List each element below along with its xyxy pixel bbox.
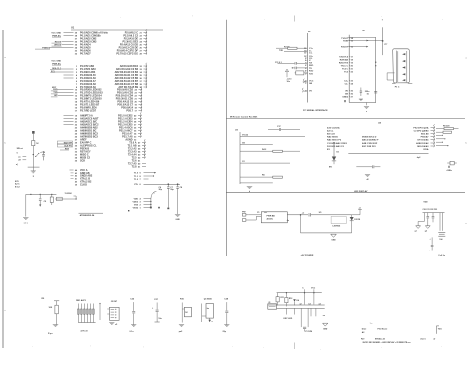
svg-text:C8: C8: [180, 187, 183, 189]
connector P1 DB9 inner left double edge: [395, 51, 397, 83]
svg-text:nc: nc: [362, 30, 365, 32]
svg-text:23: 23: [351, 80, 354, 82]
svg-text:39: 39: [134, 118, 137, 120]
section divider horizontal upper: [226, 118, 465, 120]
svg-text:19: 19: [75, 115, 78, 117]
polarized capacitor C19: [309, 213, 311, 216]
svg-text:D1: D1: [337, 152, 340, 154]
svg-text:3: 3: [76, 72, 78, 74]
capacitor C18 on ground branch: [373, 165, 374, 168]
ground symbol bypass C20: [416, 226, 421, 229]
IR wire row 4: [240, 162, 290, 164]
svg-text:d: d: [249, 191, 250, 193]
reset switch blade: [36, 153, 39, 157]
resistor R12 drop: [285, 293, 287, 298]
svg-text:22: 22: [135, 95, 138, 97]
svg-text:C2-: C2-: [345, 83, 349, 85]
svg-text:': ': [192, 15, 193, 19]
svg-text:44: 44: [75, 169, 78, 172]
svg-text:17: 17: [351, 56, 354, 58]
svg-text:on: on: [18, 156, 21, 158]
diode D4 drop: [294, 293, 296, 299]
svg-text:T2OUT A: T2OUT A: [339, 55, 348, 58]
svg-text:20: 20: [75, 118, 78, 120]
ground symbol serial section: [366, 103, 368, 106]
svg-text:KEY LED: KEY LED: [284, 318, 293, 320]
connector J3 body: [268, 304, 277, 309]
svg-text:23: 23: [135, 92, 138, 94]
svg-text:13: 13: [75, 98, 78, 100]
capacitor C16b small cap to ground: [360, 88, 362, 91]
svg-text:26: 26: [75, 136, 78, 138]
resistor network RN1 common rail: [78, 322, 95, 324]
ground symbol group C: [109, 323, 114, 325]
svg-text:VS: VS: [309, 90, 312, 92]
svg-text:T2.8: T2.8: [132, 165, 138, 168]
svg-text:39: 39: [75, 32, 78, 34]
resistor R4 on IR row 3: [240, 150, 273, 152]
svg-text:Ref: Ref: [361, 338, 365, 340]
group E tick: [155, 321, 160, 323]
svg-text:Q1 8550: Q1 8550: [204, 299, 213, 301]
svg-text:41: 41: [138, 165, 141, 168]
svg-text:Y3 12M: Y3 12M: [305, 331, 312, 333]
svg-text:27: 27: [140, 50, 143, 52]
bottom block top rail: [277, 292, 322, 294]
svg-text:23: 23: [75, 127, 78, 129]
svg-text:DF3 D2/A5: DF3 D2/A5: [418, 138, 430, 141]
svg-text:.: .: [320, 348, 321, 351]
capacitor C15 in series on serial net: [374, 91, 377, 93]
svg-text:e: e: [212, 321, 213, 323]
svg-text:29: 29: [75, 142, 78, 144]
svg-text:34: 34: [75, 46, 78, 49]
svg-text:bc: bc: [207, 308, 210, 310]
svg-text:33: 33: [75, 154, 78, 156]
svg-text:R12: R12: [289, 298, 292, 300]
svg-text:.: .: [32, 345, 33, 348]
capacitor C14 box: [296, 71, 304, 75]
svg-text:46: 46: [138, 144, 141, 147]
svg-text:A2: A2: [362, 331, 365, 334]
key switch drop 3: [310, 308, 312, 316]
crystal Y2 symbol right: [447, 162, 450, 164]
capacitor C10 vertical: [43, 151, 45, 154]
svg-text:R10: R10: [180, 299, 185, 301]
svg-text:7: 7: [76, 84, 78, 86]
svg-text:A10 CLK2/A: A10 CLK2/A: [327, 126, 340, 129]
wire crystal to U1: [52, 198, 57, 200]
capacitor C9 on oscillator: [39, 194, 41, 198]
junction reset node: [33, 154, 34, 155]
svg-text:e: e: [366, 111, 367, 113]
svg-text:T1.1: T1.1: [134, 176, 139, 178]
svg-text:+5: +5: [359, 208, 361, 210]
connector P1 pin 5: [402, 79, 405, 81]
ground symbol group F: [179, 325, 184, 327]
IC U2 left edge: [306, 33, 308, 103]
svg-text:3: 3: [140, 201, 142, 203]
svg-text:MODE B/C2 D: MODE B/C2 D: [362, 136, 377, 138]
svg-text:TC3: TC3: [344, 71, 349, 73]
svg-text:C2+: C2+: [344, 80, 349, 82]
svg-text:pcr: pcr: [384, 44, 387, 46]
resistor network side pin: [99, 304, 101, 321]
svg-text:5: 5: [76, 78, 78, 80]
svg-text:10: 10: [75, 89, 78, 91]
resistor R11 drop: [277, 293, 279, 297]
svg-text:PC SERIAL INTERFACE: PC SERIAL INTERFACE: [303, 109, 328, 112]
svg-text:38: 38: [134, 121, 137, 123]
svg-text:22: 22: [140, 35, 143, 37]
svg-text:4: 4: [140, 197, 142, 200]
svg-text:24: 24: [75, 129, 78, 132]
svg-text:36: 36: [134, 127, 137, 129]
LED D3 symbol: [350, 217, 354, 221]
wire DB9 pin3 horizontal: [387, 72, 394, 74]
IC U2 right edge: [348, 35, 350, 103]
svg-text:27: 27: [75, 139, 78, 141]
wire U4 ground branch: [356, 166, 372, 168]
svg-text:26: 26: [140, 47, 143, 49]
svg-text:36: 36: [140, 78, 143, 80]
svg-text:VD: VD: [345, 90, 348, 92]
svg-text:17: 17: [135, 110, 138, 112]
vertical drop rail c: [313, 293, 315, 305]
squiggle at U2 VS pin: [301, 88, 304, 92]
grid ref divider top: [294, 16, 296, 22]
component Q1 base wire: [202, 315, 206, 317]
svg-text:0: 0: [17, 152, 19, 154]
svg-text:40: 40: [75, 181, 77, 184]
svg-text:AT89S8252-24: AT89S8252-24: [80, 214, 95, 217]
svg-text:c: c: [466, 223, 468, 225]
svg-text:D3 DIG1 AB3 C2: D3 DIG1 AB3 C2: [327, 145, 345, 148]
svg-text:R pu: R pu: [48, 333, 53, 335]
regulator U5 faint box: [331, 216, 346, 223]
crystal Y1 body: [51, 194, 53, 197]
svg-text:VCC GND: VCC GND: [51, 32, 61, 34]
svg-text:35: 35: [140, 75, 143, 77]
svg-text:VSS: VSS: [134, 204, 139, 206]
connector P1 DB9 outer shell: [393, 49, 410, 83]
svg-text:1K: 1K: [185, 312, 188, 314]
svg-text:28: 28: [140, 53, 143, 55]
svg-text:4: 4: [76, 74, 78, 77]
svg-text:C27: C27: [154, 299, 159, 301]
svg-text:T2O: T2O: [309, 74, 313, 76]
svg-text:RA3 SEG1 P2: RA3 SEG1 P2: [327, 138, 342, 141]
svg-text:39: 39: [75, 184, 77, 186]
svg-text:D4: D4: [297, 299, 300, 302]
svg-text:b: b: [466, 143, 468, 145]
svg-text:.: .: [381, 346, 382, 349]
svg-text:C9: C9: [44, 201, 47, 203]
svg-text:b: b: [5, 143, 7, 145]
svg-text:nc: nc: [323, 315, 325, 317]
svg-text:20: 20: [135, 101, 138, 103]
capacitor C10 branch wire: [33, 154, 43, 156]
ground marks under C16b: [359, 99, 363, 101]
junction on XTAL wire 1: [167, 183, 169, 185]
svg-text:17: 17: [75, 110, 78, 112]
connector P1 bottom flange left: [392, 83, 396, 85]
transistor Q2 symbol: [303, 327, 306, 329]
serial net vertical wire: [375, 37, 377, 102]
svg-text:47: 47: [138, 141, 141, 144]
svg-text:STDAC-51: STDAC-51: [375, 337, 386, 340]
svg-text:g2: g2: [425, 231, 427, 233]
svg-text:40: 40: [138, 162, 141, 165]
svg-text:A2 C: A2 C: [15, 183, 20, 186]
wire regulator input: [311, 214, 352, 216]
resistor R7 wire from U4 row2: [436, 131, 443, 133]
capacitor C11 on wire: [278, 62, 295, 64]
polarized capacitor C13 vertical: [285, 69, 288, 72]
svg-text:C28: C28: [224, 299, 229, 301]
svg-text:34: 34: [140, 71, 143, 74]
svg-text:30p: 30p: [170, 189, 174, 191]
resistor R6 wire from U4 row1: [436, 128, 444, 130]
bottom block bus lower: [277, 307, 325, 309]
svg-text:45: 45: [138, 147, 141, 150]
svg-text:12: 12: [75, 95, 78, 97]
svg-text:.: .: [441, 345, 442, 348]
wire osc left drop: [25, 194, 27, 216]
svg-text:x5: x5: [115, 324, 117, 326]
svg-text:d2: d2: [366, 179, 368, 181]
svg-text:1 x: 1 x: [370, 323, 374, 325]
U2 R1OUT stub: [348, 46, 366, 48]
svg-text:22: 22: [75, 124, 78, 126]
component Q1 emitter marks: [209, 318, 211, 322]
svg-text:SD2 A8: SD2 A8: [421, 132, 429, 135]
svg-text:R9: R9: [42, 298, 46, 300]
svg-text:33: 33: [140, 69, 143, 71]
svg-text:R1IN: R1IN: [343, 41, 348, 43]
svg-text:1: 1: [140, 207, 142, 209]
svg-text:15: 15: [75, 104, 78, 106]
VCC tick above R9: [54, 300, 59, 302]
wire to +5V arrow: [352, 214, 360, 216]
svg-text:32: 32: [140, 66, 143, 68]
svg-text:P1 C: P1 C: [395, 87, 400, 89]
svg-text:6: 6: [305, 65, 307, 67]
svg-text:,: ,: [90, 344, 91, 347]
svg-text:U4: U4: [378, 121, 382, 124]
svg-text:SCK: SCK: [80, 159, 85, 162]
svg-text:35: 35: [75, 44, 78, 46]
svg-text:c: c: [5, 310, 7, 312]
svg-text:10K: 10K: [49, 307, 53, 309]
svg-text:44: 44: [138, 150, 141, 153]
reset bottom rail: [28, 166, 40, 168]
svg-text:R2OUT B: R2OUT B: [339, 62, 349, 64]
svg-text:R6 220: R6 220: [443, 126, 450, 128]
U4 bottom bus wire: [348, 153, 428, 155]
junction R1IN at DB9 feed: [382, 40, 384, 42]
title block bracket: [435, 326, 437, 334]
svg-text:LED DISPLAY: LED DISPLAY: [354, 190, 368, 193]
wire stub V- squiggle: [303, 81, 308, 83]
svg-text:.: .: [232, 345, 233, 348]
svg-text:21: 21: [75, 121, 78, 123]
svg-text:VDD: VDD: [423, 201, 428, 203]
svg-text:E3: E3: [327, 149, 330, 151]
svg-text:24: 24: [140, 40, 143, 43]
svg-text:C20 C21 C22 C23: C20 C21 C22 C23: [423, 209, 438, 211]
svg-text:41: 41: [75, 178, 77, 181]
ground symbol below XTAL capacitors: [175, 214, 180, 216]
svg-text:43: 43: [138, 153, 141, 156]
junction osc c: [51, 194, 52, 195]
test point marks at U4 rows: [436, 134, 442, 136]
svg-text:VO A2: VO A2: [242, 133, 249, 136]
svg-text:PWR BD: PWR BD: [267, 216, 276, 218]
svg-text:C: C: [302, 288, 304, 290]
svg-text:A2 CL: A2 CL: [327, 129, 334, 132]
svg-text:GND: GND: [331, 239, 336, 241]
svg-text:1: 1: [76, 66, 78, 68]
svg-text:22p: 22p: [223, 331, 227, 333]
svg-text:32: 32: [75, 151, 78, 153]
svg-text:GS: GS: [242, 142, 246, 144]
power connector J1 pin 1: [242, 214, 246, 217]
svg-text:b3: b3: [309, 303, 311, 305]
capacitor C26 vertical: [133, 302, 135, 311]
svg-text:C1-: C1-: [309, 53, 313, 55]
svg-text:25: 25: [75, 133, 78, 135]
svg-text:1: 1: [305, 83, 307, 85]
svg-text:41: 41: [138, 159, 141, 162]
svg-text:GND: GND: [175, 219, 180, 221]
svg-text:27: 27: [351, 96, 354, 98]
vertical drop rail b: [304, 293, 306, 305]
bypass capacitor C20 drop with bend: [418, 213, 424, 226]
svg-text:9: 9: [140, 173, 142, 175]
svg-text:R5: R5: [262, 175, 265, 177]
svg-text:+5V POWER: +5V POWER: [301, 255, 314, 257]
capacitor C16 marks on bottom wire: [344, 100, 346, 102]
svg-text:VCC GND: VCC GND: [51, 60, 61, 62]
svg-text:34: 34: [75, 156, 78, 159]
svg-text:a2: a2: [300, 303, 302, 305]
svg-text:TXD: TXD: [279, 50, 284, 52]
svg-text:SW rst: SW rst: [17, 147, 24, 150]
ground symbol oscillator: [23, 218, 28, 220]
svg-text:33: 33: [75, 50, 78, 52]
connector J2 body: [110, 307, 120, 320]
jumper arc at oscillator pins: [151, 191, 157, 199]
U2 R1IN wire to connector net: [348, 40, 383, 42]
ground symbol bottom block: [323, 323, 328, 326]
resistor R3 on TXD wire: [276, 47, 288, 49]
svg-text:IR1: IR1: [329, 166, 333, 168]
svg-text:22: 22: [351, 71, 354, 73]
resistor network RN1 pins: [77, 304, 79, 323]
junction osc b: [40, 194, 41, 195]
svg-text:4 MHz: 4 MHz: [447, 169, 453, 172]
svg-text:D5/A: D5/A: [424, 148, 429, 151]
svg-text:8C5: 8C5: [15, 181, 20, 183]
svg-text:VSS2: VSS2: [133, 207, 139, 209]
svg-text:31: 31: [75, 148, 78, 150]
svg-text:PS2 DFG Q2/A: PS2 DFG Q2/A: [413, 126, 428, 129]
svg-text:P2.7/A15 C2FG DG: P2.7/A15 C2FG DG: [116, 52, 138, 55]
IR wire row 6: [240, 182, 273, 184]
svg-text:,: ,: [143, 345, 144, 348]
svg-text:30p: 30p: [159, 189, 163, 191]
svg-text:PS0.7: PS0.7: [126, 109, 133, 112]
section divider vertical: [225, 20, 227, 256]
svg-text:A2B C3D2 E2F: A2B C3D2 E2F: [362, 142, 378, 145]
svg-text:36: 36: [75, 41, 78, 43]
svg-text:2: 2: [76, 69, 78, 71]
key switch drop 4: [315, 308, 317, 316]
svg-text:38: 38: [75, 35, 78, 37]
svg-text:6: 6: [76, 81, 78, 83]
svg-text:4.7K x8: 4.7K x8: [81, 330, 89, 333]
svg-text:33: 33: [134, 136, 137, 138]
svg-text:11: 11: [75, 92, 78, 94]
microcontroller U1 top edge: [71, 29, 163, 31]
junction top rail a: [286, 292, 287, 293]
U1 left pin tick marks group6: [71, 172, 74, 174]
svg-text:D3 R8: D3 R8: [354, 219, 361, 221]
ground symbol below reset: [32, 167, 34, 171]
DB9 feed vertical wire: [382, 27, 384, 55]
svg-text:8: 8: [140, 176, 142, 178]
svg-text:pu2: pu2: [179, 331, 183, 333]
wire J1 to bridge: [248, 214, 261, 216]
svg-text:a: a: [466, 58, 468, 60]
svg-text:21: 21: [140, 32, 143, 34]
svg-text:A2B2 D3/A2: A2B2 D3/A2: [416, 142, 429, 145]
resistor R9 vertical with box: [56, 301, 58, 305]
svg-text:.: .: [120, 16, 121, 19]
bottom block bus upper: [268, 304, 325, 306]
capacitor C28 vertical: [226, 302, 228, 310]
svg-text:7: 7: [140, 179, 142, 181]
svg-text:VDD2: VDD2: [132, 201, 138, 203]
svg-text:19: 19: [135, 104, 138, 106]
resistor R10 vertical: [181, 303, 183, 323]
key pad drop b: [294, 308, 296, 314]
svg-text:.: .: [430, 250, 431, 252]
svg-text:10u: 10u: [287, 81, 291, 83]
svg-text:TTLC C: TTLC C: [341, 65, 349, 67]
junction on XTAL wire 2: [177, 183, 179, 185]
svg-text:IR Remote Control Rcv BD1: IR Remote Control Rcv BD1: [230, 116, 258, 119]
+5V power arrow: [358, 209, 362, 211]
wire J1 pin2 with jog: [246, 216, 261, 220]
svg-text:R4 2: R4 2: [262, 148, 267, 151]
svg-text:1K: 1K: [36, 143, 39, 145]
svg-text:10u: 10u: [158, 318, 162, 320]
wire DB9 pin4 lateral: [387, 79, 394, 81]
svg-text:89C51 DEV BOARD + LED DISPLA: 89C51 DEV BOARD + LED DISPLAY + IR REMOT…: [363, 341, 412, 344]
svg-text:11.0592: 11.0592: [65, 193, 73, 195]
oscillator net wire horizontal: [26, 193, 57, 195]
svg-text:U5: U5: [319, 212, 322, 214]
svg-text:37: 37: [134, 124, 137, 126]
resistor R10 box: [184, 307, 191, 317]
svg-text:2: 2: [140, 204, 142, 206]
svg-text:16: 16: [75, 107, 78, 109]
svg-text:21: 21: [135, 98, 138, 100]
svg-text:23: 23: [140, 38, 143, 40]
svg-text:20: 20: [351, 65, 354, 67]
